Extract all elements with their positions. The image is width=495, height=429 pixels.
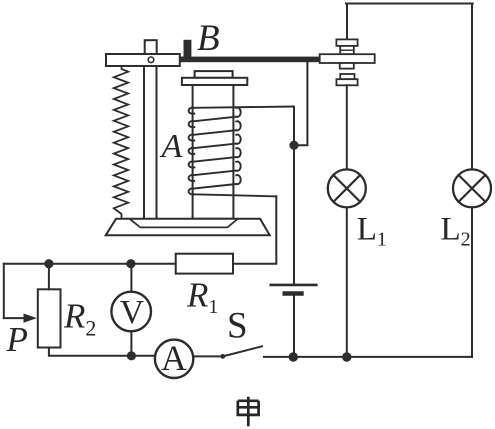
stand top bar (106, 54, 180, 66)
wire node J1 to battery (293, 145, 295, 284)
voltmeter V (111, 292, 151, 332)
slider arrow head (24, 314, 37, 323)
svg-text:A: A (161, 338, 187, 378)
rheostat R2 (38, 289, 61, 347)
wire upper contact to top rail (346, 4, 348, 40)
wire coil top down to node J1 (293, 107, 295, 146)
wire left rail (4, 263, 176, 265)
node rail V (126, 259, 135, 268)
wire coil bottom to R1 (233, 196, 276, 264)
upper fixed contact head (336, 39, 357, 46)
ammeter A (155, 340, 193, 378)
moving contact under bar (340, 63, 354, 69)
battery long plate (271, 284, 317, 287)
electromagnet cap knob (195, 71, 233, 78)
armature thick bar (180, 57, 320, 63)
lower fixed contact stem (340, 74, 354, 79)
wire ammeter to switch (193, 355, 223, 357)
electromagnet core (193, 85, 234, 219)
contact B block (184, 40, 192, 58)
wire R2 bottom (49, 348, 155, 356)
stand base (106, 219, 270, 236)
svg-text:B: B (197, 18, 220, 59)
wire lower contact to lamp L1 (346, 85, 348, 169)
wire bottom rail (264, 356, 472, 358)
lamp L1 (328, 169, 366, 207)
wire top rail down to lamp L2 (471, 4, 473, 170)
svg-text:L1: L1 (357, 212, 387, 251)
lamp L2 (453, 169, 491, 207)
voltmeter wire bottom (130, 331, 132, 356)
wire to slider P (4, 264, 25, 318)
lower fixed contact head (336, 79, 357, 85)
stand base inner groove (130, 219, 238, 228)
voltmeter wire top (130, 264, 132, 292)
electromagnet cap plate (182, 78, 247, 85)
svg-text:S: S (227, 306, 248, 347)
resistor R1 (176, 254, 233, 274)
wire rail to R2 top (48, 264, 50, 290)
svg-text:A: A (160, 128, 183, 165)
wire battery to bottom rail (293, 296, 295, 357)
node rail R2 (44, 259, 53, 268)
node V bottom (127, 351, 136, 360)
svg-text:R1: R1 (186, 275, 218, 318)
spring (114, 66, 128, 218)
svg-text:L2: L2 (441, 212, 471, 251)
stand knob above bar (145, 40, 157, 55)
node J1 (289, 141, 298, 150)
node lamp L1 bottom (342, 352, 351, 361)
pivot screw (148, 57, 154, 63)
coil A (189, 107, 294, 197)
lamp L2 wire bottom (471, 207, 473, 357)
switch blade S (223, 346, 262, 356)
node battery bottom (289, 352, 298, 361)
svg-text:R2: R2 (63, 297, 96, 341)
armature contact bar (320, 54, 375, 63)
battery short plate (285, 291, 302, 296)
wire top rail (346, 3, 473, 5)
svg-text:V: V (120, 294, 144, 331)
switch pivot (220, 354, 225, 359)
stand post (144, 66, 157, 219)
lamp L1 wire bottom (346, 207, 348, 357)
upper fixed contact stem (340, 46, 354, 54)
svg-text:P: P (6, 320, 28, 359)
wire armature to node J1 (294, 62, 307, 145)
label jia (drawn strokes) (238, 397, 259, 427)
